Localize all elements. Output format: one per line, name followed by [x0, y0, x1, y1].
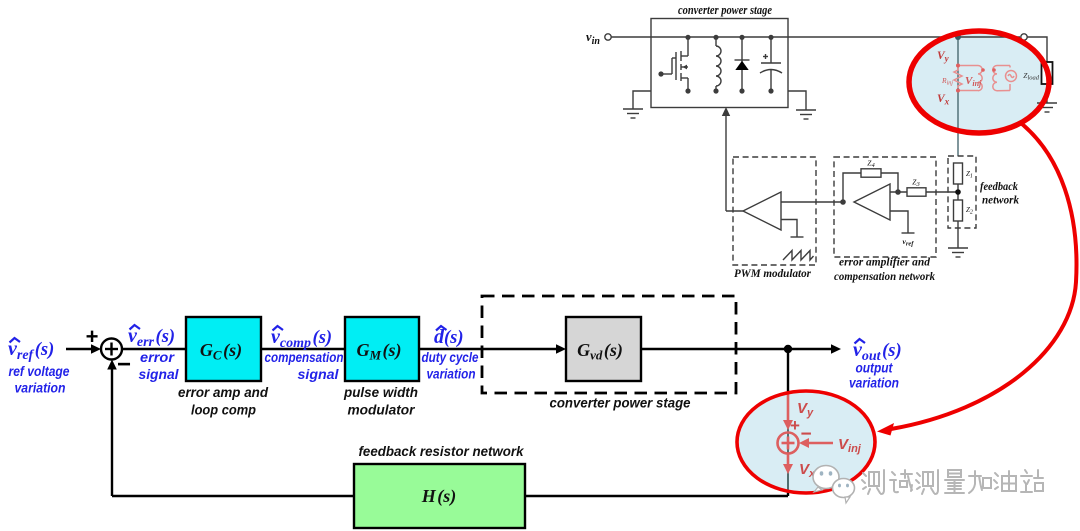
wire Gc to Gm [261, 348, 345, 350]
svg-text:vref (s): vref (s) [8, 338, 54, 363]
node secondary dot polarity [981, 68, 985, 72]
svg-text:converter power stage: converter power stage [678, 3, 772, 17]
svg-text:output: output [856, 360, 894, 376]
node primary dot polarity [992, 68, 996, 72]
wire load to ground [1046, 84, 1048, 103]
svg-text:vref: vref [903, 237, 915, 248]
node injection ellipse highlight (red ring) [909, 31, 1049, 133]
wire compensation feedback loop [843, 173, 898, 202]
wire error amp output to comparator input [781, 201, 843, 203]
wire Z3 to divider [926, 191, 958, 193]
ground right [796, 110, 816, 119]
wire left ground stub [633, 91, 651, 109]
svg-text:pulse width: pulse width [343, 384, 418, 400]
label verr(s) math [128, 325, 175, 350]
watermark text 测试测量加油站 [862, 470, 1043, 494]
node inverting input junction [895, 189, 901, 195]
wire vref arrow into summer [66, 348, 94, 350]
node error amp output junction [840, 199, 846, 205]
node injection summing circle [778, 433, 799, 454]
node injection point ellipse (red ring) [737, 391, 875, 493]
label vout(s) math [853, 339, 902, 364]
wire output rail to node [788, 36, 958, 38]
wire feedback sense vertical Vy-Vx [957, 37, 959, 156]
wire output down to injection point [787, 349, 789, 496]
error amplifier dashed box [834, 157, 936, 257]
wire injection transformer primary loop [993, 66, 1010, 91]
svg-text:signal: signal [298, 366, 340, 382]
op-amp U1 error amplifier [854, 184, 890, 220]
wire comparator output to vertical riser [726, 210, 743, 212]
wire right ground stub [788, 91, 806, 110]
label sawtooth ramp symbol [783, 251, 814, 261]
node output takeoff junction [784, 345, 792, 353]
svg-text:Z1: Z1 [966, 170, 973, 180]
svg-text:error amp and: error amp and [178, 384, 268, 400]
node divider junction [955, 189, 961, 195]
label vcomp(s) math [271, 326, 332, 351]
source injection generator [1006, 71, 1017, 82]
wire red callout curve to lower ellipse [891, 124, 1077, 429]
svg-text:feedback: feedback [980, 179, 1018, 193]
svg-text:vin: vin [586, 30, 600, 47]
svg-text:converter power stage: converter power stage [550, 395, 691, 411]
wire summer to Gc [122, 348, 186, 350]
wire vref input [890, 211, 908, 233]
svg-text:variation: variation [15, 380, 66, 396]
svg-text:variation: variation [427, 366, 476, 382]
wire Gm to Gvd with arrow [419, 348, 559, 350]
resistor Rinj zigzag on sense wire [954, 67, 962, 88]
block H feedback resistor network [354, 464, 525, 528]
ground load [1037, 103, 1057, 112]
node injection ellipse highlight (fill) [909, 31, 1049, 133]
resistor Zload [1042, 62, 1053, 84]
wire output node to load terminal [958, 36, 1020, 38]
node summing junction [101, 339, 122, 360]
svg-text:−: − [800, 424, 811, 445]
node output junction [955, 34, 961, 40]
wire Z1 to divider node [957, 184, 959, 200]
resistor Z1 [954, 163, 963, 184]
inductor L1 [713, 35, 721, 94]
wire inverting input [890, 191, 907, 193]
svg-text:network: network [982, 193, 1019, 207]
svg-text:modulator: modulator [348, 402, 417, 418]
wire ramp input [781, 220, 797, 238]
wire Z2 to ground [957, 221, 959, 248]
PWM modulator dashed box [733, 157, 816, 265]
svg-text:GC (s): GC (s) [200, 340, 242, 363]
converter power stage box [651, 19, 788, 108]
svg-text:error amplifier and: error amplifier and [839, 257, 930, 269]
wire terminal to load [1027, 37, 1047, 62]
ground left [623, 109, 643, 118]
resistor Z4 [861, 169, 881, 177]
diode D1 [735, 35, 750, 94]
node Rinj bottom [956, 89, 960, 93]
feedback network dashed box [948, 156, 976, 228]
block Gm pulse width modulator [345, 317, 419, 381]
node Rinj top [956, 64, 960, 68]
wire Gvd to output with arrow [641, 348, 833, 350]
svg-text:error: error [140, 349, 176, 365]
node vout terminal [1021, 34, 1027, 40]
wire vin to power stage box [611, 36, 651, 38]
node vref terminal bar [902, 232, 915, 234]
converter power stage dashed box [482, 296, 736, 393]
svg-text:+: + [790, 416, 800, 435]
svg-text:compensation network: compensation network [834, 271, 935, 283]
svg-text:H (s): H (s) [421, 486, 457, 507]
block Gvd power stage transfer function [566, 317, 641, 381]
svg-text:variation: variation [849, 375, 899, 391]
svg-text:+: + [86, 324, 99, 349]
resistor Z2 [954, 200, 963, 221]
block Gc error amp compensator [186, 317, 261, 381]
wire riser up to summer with arrow [111, 366, 113, 496]
transistor Q1 MOSFET [658, 35, 690, 94]
svg-text:Z3: Z3 [912, 178, 920, 189]
svg-text:ref voltage: ref voltage [9, 363, 70, 379]
node ramp terminal bar [791, 236, 804, 238]
svg-text:compensation: compensation [265, 349, 344, 365]
label d(s) math [434, 326, 464, 348]
svg-text:vcomp (s): vcomp (s) [271, 326, 332, 351]
wire Vy arrow down into summer [787, 394, 790, 424]
wire output down segment inside ellipse [787, 391, 789, 493]
svg-text:duty cycle: duty cycle [422, 349, 479, 365]
label vref(s) math [8, 338, 54, 363]
wire injection to H block [525, 495, 788, 497]
svg-text:Z4: Z4 [867, 159, 875, 170]
wire H block to riser [112, 495, 354, 497]
svg-text:signal: signal [139, 366, 180, 382]
watermark wechat icon [813, 466, 855, 504]
svg-text:loop comp: loop comp [191, 402, 256, 418]
node injection point ellipse (fill) [737, 391, 875, 493]
wire top rail [651, 36, 788, 38]
resistor Z3 [907, 188, 926, 196]
wire injection transformer secondary loop [962, 66, 982, 91]
node vin terminal [605, 34, 611, 40]
svg-text:feedback resistor network: feedback resistor network [359, 443, 525, 459]
ground feedback divider [948, 248, 968, 257]
wire PWM output up to power stage with arrow [725, 114, 727, 211]
svg-text:−: − [117, 351, 131, 378]
svg-text:Z2: Z2 [966, 206, 973, 216]
svg-text:PWM modulator: PWM modulator [734, 268, 812, 280]
svg-text:verr (s): verr (s) [128, 325, 175, 350]
capacitor C1 polarized [760, 35, 782, 94]
wire Vx arrow down out of summer [787, 454, 790, 469]
wire Vinj arrow into summer [805, 442, 833, 445]
op-amp U2 PWM comparator [743, 192, 781, 230]
